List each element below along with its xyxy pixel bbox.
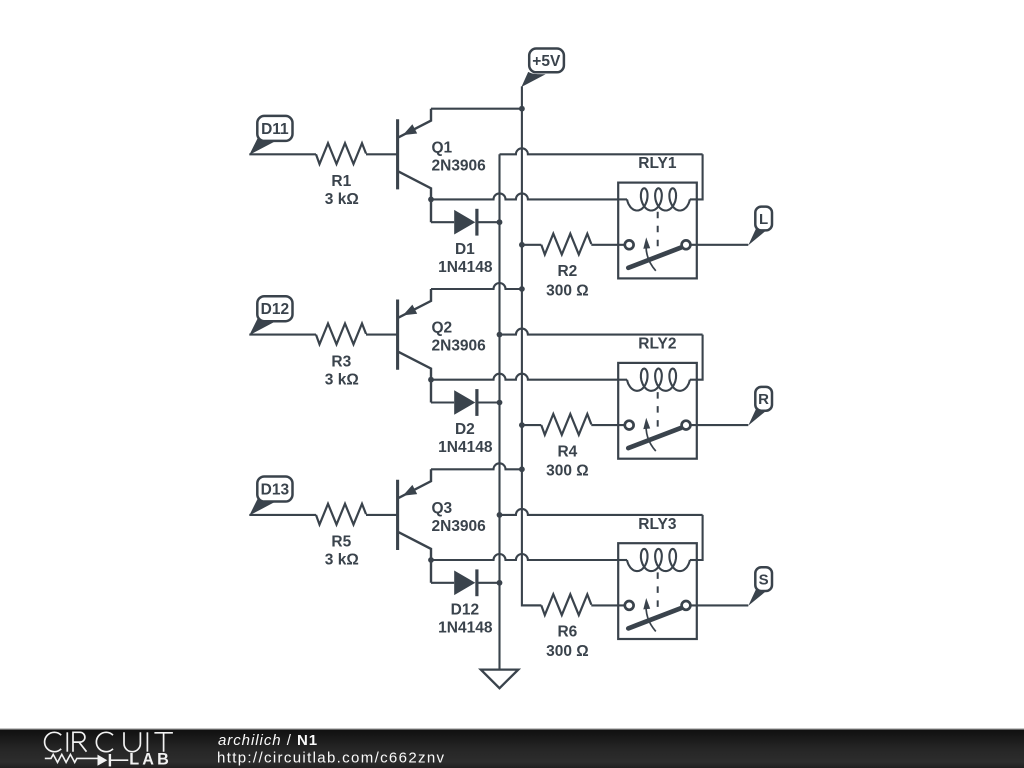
svg-text:LAB: LAB <box>129 751 172 768</box>
svg-text:+5V: +5V <box>532 53 561 70</box>
svg-text:1N4148: 1N4148 <box>438 439 493 456</box>
svg-text:R: R <box>758 391 769 408</box>
svg-text:D13: D13 <box>261 481 290 498</box>
svg-text:300 Ω: 300 Ω <box>546 643 589 660</box>
svg-text:Q3: Q3 <box>432 500 453 517</box>
svg-text:R1: R1 <box>331 173 351 190</box>
svg-text:3 kΩ: 3 kΩ <box>325 552 359 569</box>
svg-text:S: S <box>759 572 769 589</box>
svg-text:R6: R6 <box>557 624 577 641</box>
svg-text:3 kΩ: 3 kΩ <box>325 371 359 388</box>
svg-text:1N4148: 1N4148 <box>438 619 493 636</box>
svg-text:R2: R2 <box>557 263 577 280</box>
svg-text:2N3906: 2N3906 <box>432 338 487 355</box>
svg-text:D12: D12 <box>261 301 289 318</box>
svg-text:Q1: Q1 <box>432 139 453 156</box>
svg-text:R4: R4 <box>557 443 577 460</box>
svg-text:archilich / N1: archilich / N1 <box>218 732 318 749</box>
svg-text:D1: D1 <box>455 241 475 258</box>
svg-text:3 kΩ: 3 kΩ <box>325 191 359 208</box>
svg-text:R5: R5 <box>331 534 351 551</box>
svg-text:Q2: Q2 <box>432 320 453 337</box>
svg-text:D11: D11 <box>261 121 289 138</box>
svg-text:RLY1: RLY1 <box>638 155 677 172</box>
svg-text:2N3906: 2N3906 <box>432 157 487 174</box>
svg-text:300 Ω: 300 Ω <box>546 282 589 299</box>
svg-text:D12: D12 <box>451 601 479 618</box>
svg-text:1N4148: 1N4148 <box>438 259 493 276</box>
svg-text:2N3906: 2N3906 <box>432 518 487 535</box>
svg-text:R3: R3 <box>331 353 351 370</box>
svg-text:300 Ω: 300 Ω <box>546 463 589 480</box>
svg-text:D2: D2 <box>455 421 475 438</box>
svg-text:http://circuitlab.com/c662znv: http://circuitlab.com/c662znv <box>217 749 445 766</box>
svg-text:RLY3: RLY3 <box>638 516 677 533</box>
svg-text:RLY2: RLY2 <box>638 336 676 353</box>
svg-text:L: L <box>759 211 768 228</box>
